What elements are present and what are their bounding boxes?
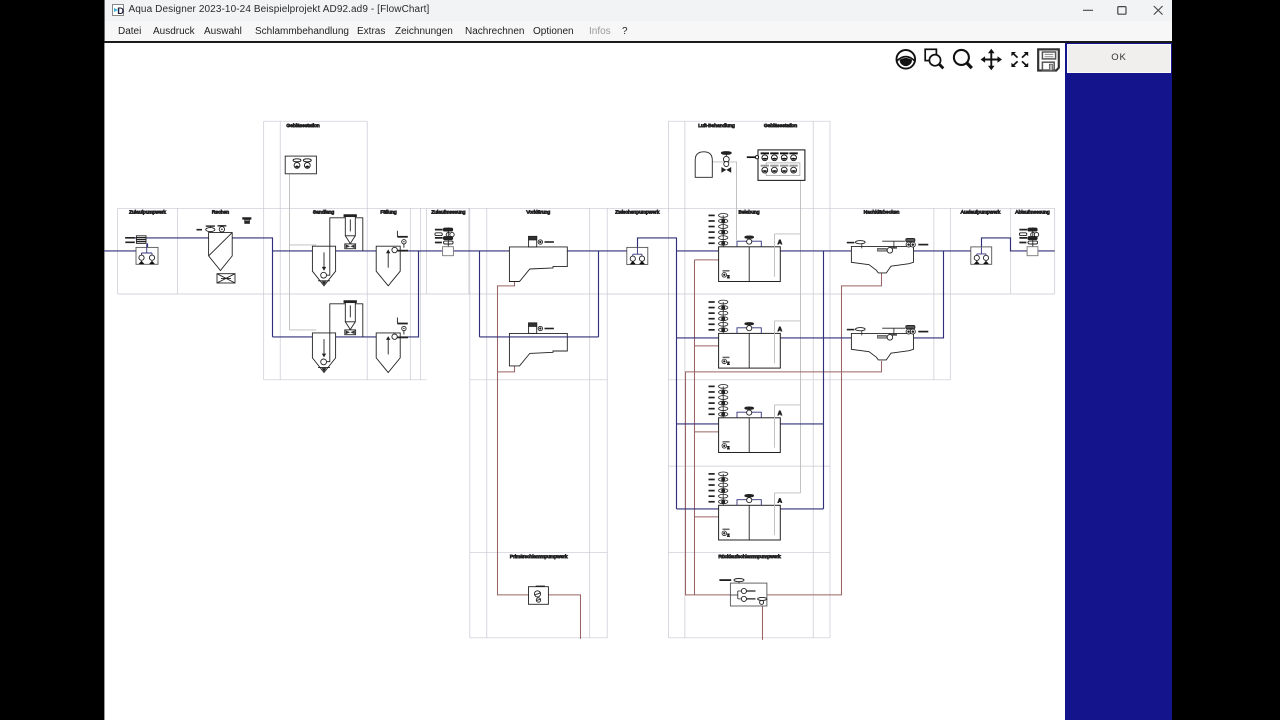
svg-text:Fällung: Fällung xyxy=(380,209,397,215)
svg-text:Nachklärbecken: Nachklärbecken xyxy=(864,209,900,215)
svg-text:Zwischenpumpwerk: Zwischenpumpwerk xyxy=(615,209,660,215)
svg-text:Gebläsestation: Gebläsestation xyxy=(764,123,797,129)
svg-text:Rechen: Rechen xyxy=(212,209,229,215)
svg-text:Primärschlammpumpwerk: Primärschlammpumpwerk xyxy=(510,553,568,559)
svg-text:Vorklärung: Vorklärung xyxy=(526,209,550,215)
svg-text:Rücklaufschlammpumpwerk: Rücklaufschlammpumpwerk xyxy=(718,553,781,559)
svg-text:Sandfang: Sandfang xyxy=(313,209,335,215)
svg-text:Zulaufmessung: Zulaufmessung xyxy=(431,209,465,215)
svg-text:Gebläsestation: Gebläsestation xyxy=(286,123,319,129)
svg-text:Luft-Behandlung: Luft-Behandlung xyxy=(698,123,735,129)
svg-text:Zulaufpumpwerk: Zulaufpumpwerk xyxy=(129,209,166,215)
svg-text:Belebung: Belebung xyxy=(738,209,759,215)
svg-text:Ablaufmessung: Ablaufmessung xyxy=(1015,209,1050,215)
svg-text:Auslaufpumpwerk: Auslaufpumpwerk xyxy=(961,209,1001,215)
